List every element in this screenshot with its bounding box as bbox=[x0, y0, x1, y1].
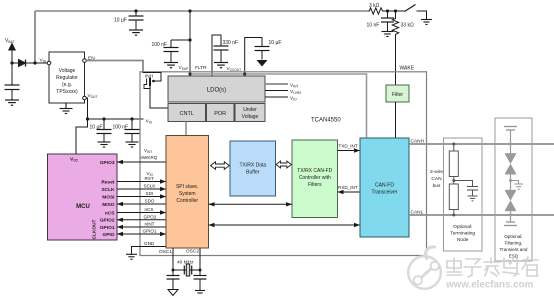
svg-text:Voltage: Voltage bbox=[59, 68, 76, 74]
ground at GND pin bbox=[126, 254, 137, 259]
wire OSC1 bbox=[172, 248, 174, 270]
capacitor 10uF (VIO) bbox=[97, 119, 112, 142]
wire switch to ground bbox=[417, 11, 427, 20]
internal VSUP rail to transceiver (gray) bbox=[190, 74, 367, 138]
wire term cap branch bbox=[454, 181, 473, 187]
ground below 100nF bbox=[164, 63, 178, 68]
svg-text:MCU: MCU bbox=[76, 204, 90, 210]
wire top rail bbox=[35, 10, 368, 12]
svg-text:GPIO: GPIO bbox=[103, 232, 115, 238]
svg-text:MISO: MISO bbox=[102, 202, 115, 208]
wire nCS row bbox=[117, 212, 166, 214]
TX/RX Data Buffer box bbox=[230, 141, 276, 196]
wire VOUT to rail bbox=[86, 98, 87, 119]
wire SDI row bbox=[117, 196, 166, 198]
wire EN to INH (gray) bbox=[86, 61, 143, 74]
label 2-wire CAN bus bbox=[430, 169, 443, 189]
svg-text:Controller with: Controller with bbox=[299, 175, 331, 181]
capacitor 10uF (VCCOUT) bbox=[255, 47, 270, 60]
svg-text:CLKOUT: CLKOUT bbox=[92, 219, 98, 239]
svg-text:SPI slave,: SPI slave, bbox=[176, 184, 199, 190]
label Optional Terminating Node bbox=[450, 224, 475, 243]
svg-text:TPSxxxx): TPSxxxx) bbox=[56, 89, 78, 95]
ground below 100nF (VIO) bbox=[126, 142, 139, 147]
svg-text:WAKE: WAKE bbox=[400, 66, 415, 72]
svg-text:INH: INH bbox=[145, 74, 153, 79]
svg-text:GND: GND bbox=[144, 241, 155, 246]
svg-text:SDI: SDI bbox=[146, 191, 154, 196]
Under Voltage box bbox=[235, 104, 265, 122]
svg-text:SDO: SDO bbox=[145, 199, 155, 204]
wire CNTL to SPI controller (gray) bbox=[185, 122, 187, 137]
ground at switch bbox=[421, 20, 432, 25]
wire OSC2 bbox=[199, 248, 201, 270]
svg-text:SCLK: SCLK bbox=[144, 184, 157, 189]
capacitor 100nF (VIO) bbox=[125, 119, 140, 142]
wire SDO row bbox=[117, 203, 166, 205]
wire VBAT rail drop to VIN node bbox=[34, 11, 36, 63]
TCAN4550 chip boundary bbox=[140, 72, 427, 256]
watermark small circle upper bbox=[431, 262, 439, 270]
LDO(s) box bbox=[168, 76, 265, 102]
svg-text:nCS: nCS bbox=[145, 207, 154, 212]
ground crystal left (triangle) bbox=[168, 290, 178, 296]
junction ESD mid bbox=[509, 179, 512, 182]
wire TVS2 to CANL bbox=[510, 211, 512, 216]
svg-text:33 kΩ: 33 kΩ bbox=[401, 23, 414, 29]
transistor INH wire bbox=[143, 73, 161, 82]
svg-text:RST: RST bbox=[145, 176, 154, 181]
junction 10uF tap bbox=[134, 9, 137, 12]
wire SCLK row bbox=[117, 188, 166, 190]
wire ESD CANH to TVS1 bbox=[510, 144, 512, 154]
junction CANL term bbox=[452, 214, 455, 217]
resistor R term1 bbox=[449, 151, 458, 177]
ground below 330nF bbox=[214, 63, 228, 68]
wire GPO2 row bbox=[117, 219, 166, 221]
junction 10nF tap bbox=[386, 9, 389, 12]
wire Filter to transceiver bbox=[395, 102, 397, 138]
TVS diode pair 2 bbox=[505, 191, 516, 211]
svg-text:RXD_INT: RXD_INT bbox=[338, 185, 358, 190]
svg-text:Transceiver: Transceiver bbox=[372, 190, 398, 196]
svg-text:bus: bus bbox=[433, 183, 441, 189]
wire FLTR loop bbox=[212, 35, 221, 76]
svg-text:Transient and: Transient and bbox=[500, 247, 528, 252]
svg-text:CNTL: CNTL bbox=[180, 111, 194, 117]
terminating node box bbox=[444, 138, 483, 251]
wire 100nF branch bbox=[171, 39, 190, 41]
svg-text:POR: POR bbox=[214, 111, 226, 117]
wire RST row bbox=[117, 181, 166, 183]
ground below 10nF bbox=[382, 32, 394, 37]
LDO right pin VINT bbox=[265, 83, 288, 85]
svg-text:Filters: Filters bbox=[308, 182, 322, 188]
watermark logo circle bbox=[408, 247, 441, 289]
junction ESD CANL bbox=[509, 214, 512, 217]
junction ESD CANH bbox=[509, 143, 512, 146]
pin VIN circle bbox=[47, 61, 51, 65]
svg-text:CAN-FD: CAN-FD bbox=[375, 183, 394, 189]
wire CANL bbox=[409, 214, 554, 216]
ground below 10uF top bbox=[129, 30, 143, 35]
junction OSC1 bbox=[172, 269, 175, 272]
glyph you bbox=[522, 257, 538, 276]
svg-text:GPO2: GPO2 bbox=[144, 215, 157, 220]
fat arrow SPI to buffer bbox=[211, 162, 230, 170]
ground below C_VBAT bbox=[5, 100, 19, 105]
wire GPIO1 row (bidirectional) bbox=[117, 233, 166, 235]
svg-text:Under: Under bbox=[243, 107, 257, 113]
resistor 33k (vertical zigzag) bbox=[392, 11, 398, 37]
net labels MCU to chip bbox=[141, 148, 158, 246]
TVS diode pair 1 bbox=[505, 154, 516, 174]
svg-text:TCAN4550: TCAN4550 bbox=[311, 118, 341, 124]
svg-text:GPIO1: GPIO1 bbox=[100, 225, 115, 231]
SPI slave System Controller box bbox=[166, 136, 209, 249]
ground below regulator bbox=[60, 103, 73, 114]
capacitor crystal left bbox=[167, 270, 180, 290]
svg-text:10 µF: 10 µF bbox=[269, 40, 282, 46]
svg-text:OSC2: OSC2 bbox=[186, 249, 199, 255]
Filter box bbox=[386, 85, 409, 102]
junction VBAT bbox=[10, 61, 13, 64]
crystal X1 bbox=[184, 264, 191, 276]
svg-text:TX/RX Data: TX/RX Data bbox=[239, 163, 266, 169]
capacitor C_VBAT bbox=[5, 85, 20, 100]
svg-text:Terminating: Terminating bbox=[450, 231, 475, 237]
svg-text:GPIO2: GPIO2 bbox=[100, 218, 115, 224]
capacitor ESD top bbox=[504, 127, 517, 145]
junction VSUP 100nF tap bbox=[188, 38, 191, 41]
junction 10uF tap on VIO rail bbox=[102, 117, 105, 120]
transistor INH gate lead bbox=[144, 85, 150, 89]
capacitor ESD bottom bbox=[504, 215, 517, 226]
wire VIO rail bbox=[88, 118, 144, 120]
pin VOUT circle bbox=[83, 96, 87, 100]
wire VCC drop to MCU bbox=[76, 119, 88, 154]
svg-text:nINT: nINT bbox=[145, 222, 155, 227]
glyph dian bbox=[447, 258, 462, 275]
svg-text:Filter: Filter bbox=[392, 92, 403, 98]
svg-text:Optional:: Optional: bbox=[453, 224, 472, 230]
capacitor crystal right bbox=[194, 270, 207, 290]
svg-text:nCS: nCS bbox=[105, 210, 115, 216]
LDO right pin VLVRX bbox=[265, 90, 288, 92]
wire diode to VIN bbox=[26, 62, 48, 64]
svg-text:nWKRQ: nWKRQ bbox=[141, 155, 158, 160]
watermark crescent bbox=[425, 247, 436, 260]
svg-text:2-wire: 2-wire bbox=[430, 169, 443, 175]
capacitor 100nF bbox=[164, 40, 179, 62]
POR box bbox=[207, 104, 235, 122]
wire VBAT to diode bbox=[12, 62, 19, 64]
diode D1 bbox=[19, 60, 26, 67]
svg-text:10 nF: 10 nF bbox=[367, 23, 380, 29]
svg-text:MOSI: MOSI bbox=[102, 194, 115, 200]
svg-text:10 µF: 10 µF bbox=[114, 18, 127, 24]
junction 33k tap bbox=[394, 9, 397, 12]
svg-text:Reset: Reset bbox=[101, 179, 114, 185]
svg-text:Voltage: Voltage bbox=[242, 114, 259, 120]
junction at VIN node bbox=[33, 61, 36, 64]
svg-text:LDO(s): LDO(s) bbox=[207, 88, 226, 94]
capacitor 10uF top bbox=[129, 11, 144, 30]
svg-text:SCLK: SCLK bbox=[101, 187, 115, 193]
wire 3k to switch bbox=[384, 10, 405, 12]
svg-text:Controller: Controller bbox=[176, 198, 198, 204]
svg-text:TXD_INT: TXD_INT bbox=[339, 144, 358, 149]
fat arrow buffer to controller bbox=[276, 161, 291, 168]
wire INH to CNTL bbox=[150, 86, 168, 108]
ground crystal right bbox=[195, 291, 205, 294]
wire nWKRQ row bbox=[117, 161, 166, 163]
wire CANH bbox=[409, 143, 554, 145]
junction CANH term bbox=[452, 143, 455, 146]
junction OSC2 bbox=[199, 269, 202, 272]
arrow SPI to transceiver (double) bbox=[209, 224, 361, 226]
pin EN circle bbox=[83, 59, 87, 63]
voltage regulator text bbox=[56, 68, 78, 95]
wire TXD_INT bbox=[338, 150, 361, 152]
watermark chinese glyphs (hand drawn) bbox=[447, 257, 538, 277]
wire nINT row bbox=[117, 226, 166, 228]
svg-text:www.elecfans.com: www.elecfans.com bbox=[445, 280, 534, 291]
label Optional Filtering Transient and ESD bbox=[500, 234, 528, 259]
wire crystal row bbox=[173, 269, 200, 271]
svg-text:Node: Node bbox=[457, 237, 469, 243]
glyph zi bbox=[464, 259, 481, 277]
svg-text:330 nF: 330 nF bbox=[223, 40, 239, 46]
ESD mid ground branch bbox=[511, 181, 519, 185]
ground below VCCOUT 10uF (arrow style) bbox=[257, 60, 268, 67]
svg-text:Buffer: Buffer bbox=[246, 170, 260, 176]
ground term cap bbox=[468, 196, 478, 201]
junction VSUP at rail bbox=[188, 9, 191, 12]
wire VCCOUT loop bbox=[245, 38, 262, 77]
svg-text:Optional:: Optional: bbox=[504, 234, 522, 239]
ESD filter box bbox=[495, 118, 532, 261]
junction term mid bbox=[452, 179, 455, 182]
svg-text:CANL: CANL bbox=[411, 210, 424, 216]
CNTL box bbox=[168, 104, 206, 122]
wire CANH to R term1 bbox=[453, 144, 455, 151]
capacitor 10nF bbox=[381, 11, 394, 31]
svg-text:OSC1: OSC1 bbox=[159, 249, 172, 255]
junction 100nF tap on VIO rail bbox=[130, 117, 133, 120]
wire TVS1 to mid bbox=[510, 174, 512, 191]
resistor R 3k (zigzag) bbox=[368, 8, 384, 14]
wire GND from SPI controller bbox=[132, 247, 167, 255]
svg-text:40 MHz: 40 MHz bbox=[177, 260, 194, 266]
junction VOUT rail bbox=[86, 117, 89, 120]
svg-text:System: System bbox=[179, 191, 196, 197]
TX/RX CAN-FD Controller box bbox=[292, 140, 338, 218]
junction internal rail at VSUP bbox=[188, 72, 191, 75]
transistor INH channel bbox=[149, 78, 151, 87]
LDO right pin VIO bbox=[265, 96, 288, 98]
svg-text:FLTR: FLTR bbox=[195, 65, 207, 71]
svg-text:Filtering,: Filtering, bbox=[505, 241, 523, 246]
arrow SPI to controller (double) bbox=[209, 203, 293, 205]
resistor R term2 bbox=[449, 184, 458, 210]
svg-text:(e.g.: (e.g. bbox=[62, 82, 72, 88]
wire WAKE from 33k down to Filter bbox=[395, 37, 397, 85]
svg-text:CAN: CAN bbox=[431, 176, 442, 182]
ground below 10uF (VIO) bbox=[98, 142, 111, 147]
MCU pin labels bbox=[100, 160, 115, 238]
wire R term2 to CANL bbox=[453, 210, 455, 216]
svg-text:Regulator: Regulator bbox=[56, 75, 78, 81]
wire term mid bbox=[453, 177, 455, 185]
svg-text:GPIO1: GPIO1 bbox=[143, 229, 157, 234]
watermark link bar bbox=[420, 267, 434, 280]
svg-text:TX/RX CAN-FD: TX/RX CAN-FD bbox=[297, 168, 332, 174]
svg-text:CANH: CANH bbox=[411, 139, 425, 145]
SPI slave text bbox=[176, 184, 199, 204]
transistor INH body dot bbox=[152, 80, 155, 83]
watermark small circle lower bbox=[414, 276, 422, 284]
junction internal rail at VCCOUT bbox=[243, 72, 246, 75]
wire RXD_INT bbox=[338, 191, 361, 193]
MCU box bbox=[48, 154, 118, 240]
CAN-FD Transceiver box bbox=[360, 138, 409, 237]
voltage regulator U_REG box bbox=[49, 52, 85, 103]
node VBAT arrow bbox=[9, 44, 15, 86]
svg-text:GPIO3: GPIO3 bbox=[100, 160, 115, 166]
capacitor term bbox=[467, 187, 478, 196]
transistor INH gate bbox=[146, 79, 148, 86]
glyph shao bbox=[503, 258, 519, 276]
wire VSUP drop (gray) bbox=[189, 11, 191, 76]
glyph fa bbox=[484, 258, 500, 276]
capacitor 330nF bbox=[214, 46, 229, 62]
switch blade bbox=[405, 5, 416, 12]
